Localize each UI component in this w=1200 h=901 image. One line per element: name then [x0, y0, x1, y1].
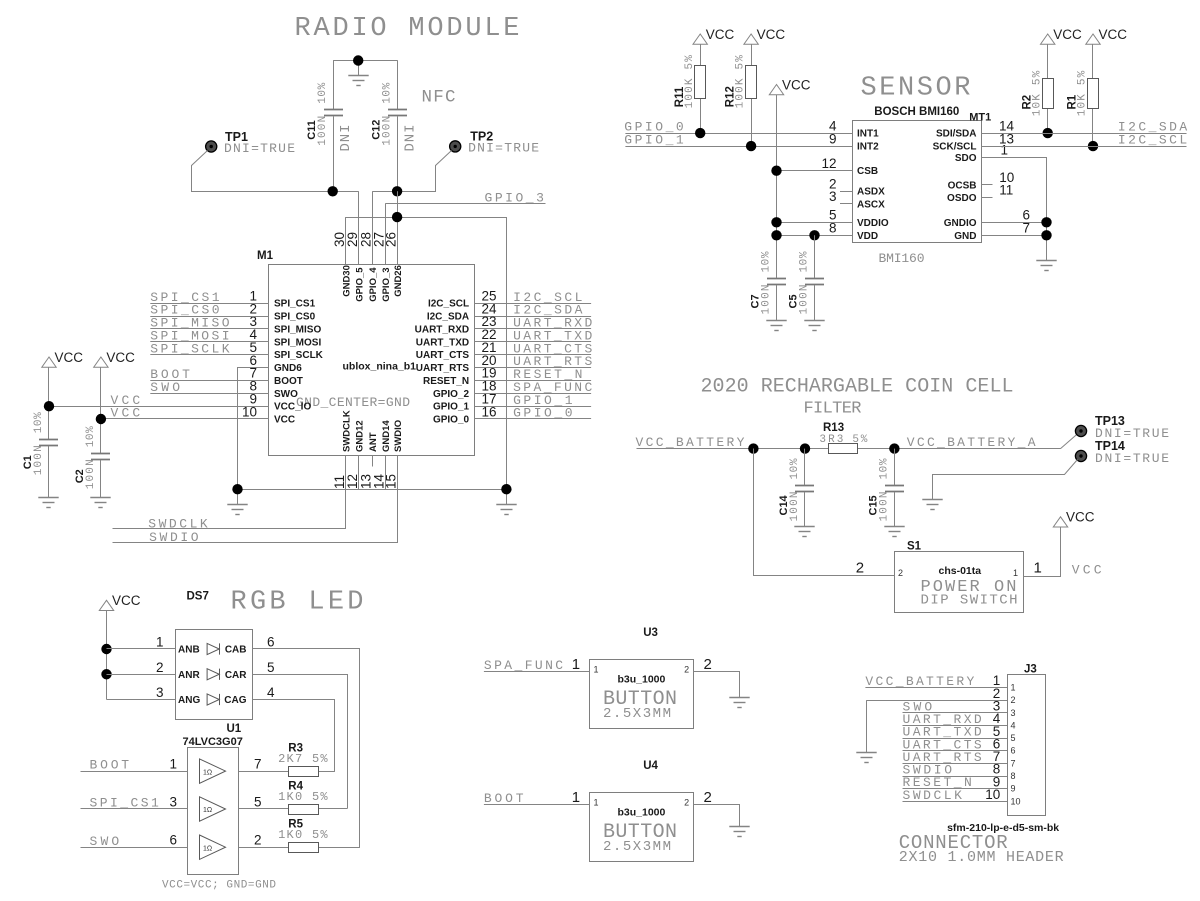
- svg-text:GND26: GND26: [393, 265, 404, 297]
- sensor MT1 BMI160 box: [853, 121, 982, 243]
- svg-text:26: 26: [383, 232, 398, 247]
- svg-text:SWDIO: SWDIO: [393, 420, 404, 452]
- svg-text:10K 5%: 10K 5%: [1077, 70, 1089, 116]
- svg-text:2: 2: [1011, 695, 1016, 705]
- wire net RESET_N: [474, 380, 591, 382]
- wire bottom ground bus: [238, 489, 507, 491]
- svg-text:VCC_BATTERY: VCC_BATTERY: [636, 435, 745, 450]
- power VCC sensor: [769, 85, 783, 95]
- svg-text:100N: 100N: [789, 492, 801, 522]
- svg-text:5: 5: [1011, 733, 1016, 743]
- junction VCC pin10: [96, 414, 106, 424]
- wire SDO to ground: [982, 158, 1047, 261]
- svg-text:1: 1: [572, 789, 580, 806]
- wire GND6 to ground bus: [238, 368, 269, 490]
- wire VCC_BATTERY_A: [858, 448, 1061, 450]
- svg-text:VCC: VCC: [1053, 27, 1082, 42]
- svg-text:9: 9: [1011, 784, 1016, 794]
- junction VDD vert: [771, 230, 781, 240]
- power VCC DS7: [99, 600, 113, 610]
- wire U1 out R4: [239, 808, 288, 810]
- svg-text:2: 2: [684, 797, 689, 807]
- svg-text:GND14: GND14: [381, 420, 392, 452]
- svg-text:100N: 100N: [799, 285, 811, 315]
- svg-text:GND: GND: [954, 231, 976, 242]
- svg-text:OSDO: OSDO: [947, 193, 977, 204]
- connector J3 box: [1008, 675, 1046, 816]
- capacitor C14: [804, 449, 806, 485]
- wire VCC to LED anodes: [106, 611, 108, 700]
- svg-text:2: 2: [856, 560, 864, 577]
- svg-text:GPIO_3: GPIO_3: [381, 267, 392, 301]
- ground M1 right: [496, 505, 516, 515]
- svg-text:1K0 5%: 1K0 5%: [278, 790, 328, 804]
- svg-text:2K7 5%: 2K7 5%: [278, 752, 328, 766]
- svg-text:CAR: CAR: [225, 670, 247, 681]
- junction GNDIO: [1041, 217, 1051, 227]
- svg-text:1: 1: [572, 656, 580, 673]
- svg-text:chs-01ta: chs-01ta: [939, 565, 982, 577]
- wire U4 pin2 to ground: [694, 805, 740, 827]
- junction vbat1: [748, 443, 758, 453]
- svg-text:NFC: NFC: [422, 88, 456, 108]
- diode ANB: [207, 643, 219, 654]
- junction CSB: [771, 166, 781, 176]
- resistor R11: [693, 34, 707, 44]
- svg-text:1: 1: [594, 797, 599, 807]
- svg-text:GPIO_2: GPIO_2: [433, 389, 470, 400]
- svg-text:SPI_CS1: SPI_CS1: [274, 299, 316, 310]
- svg-text:I2C_SCL: I2C_SCL: [1118, 133, 1187, 148]
- svg-text:SDI/SDA: SDI/SDA: [936, 129, 977, 140]
- capacitor C15: [894, 449, 896, 485]
- svg-text:2: 2: [704, 789, 712, 806]
- svg-text:DNI: DNI: [403, 125, 419, 152]
- resistor R1: [1086, 34, 1100, 44]
- wire U4 pin1 BOOT: [484, 804, 590, 806]
- wire top GND bus: [346, 218, 507, 490]
- ground M1 left: [227, 505, 247, 515]
- junction C11 bottom: [328, 186, 338, 196]
- svg-text:8: 8: [1011, 771, 1016, 781]
- svg-text:ASDX: ASDX: [857, 187, 885, 198]
- svg-text:1Ω: 1Ω: [203, 769, 212, 776]
- svg-text:ANT: ANT: [368, 432, 379, 452]
- connector pin 5 UART_TXD: [903, 738, 1008, 740]
- svg-text:UART_RXD: UART_RXD: [415, 324, 469, 335]
- junction GND pin: [1041, 230, 1051, 240]
- connector pin 4 UART_RXD: [903, 725, 1008, 727]
- svg-text:2: 2: [704, 656, 712, 673]
- wire GPIO_3: [385, 203, 545, 205]
- wire CAB to R5: [253, 649, 360, 848]
- junction top rail: [353, 55, 363, 65]
- svg-text:GPIO_0: GPIO_0: [433, 415, 470, 426]
- svg-text:1Ω: 1Ω: [203, 807, 212, 814]
- svg-text:100N: 100N: [317, 116, 329, 146]
- svg-text:5: 5: [254, 795, 262, 810]
- svg-text:GND12: GND12: [355, 420, 366, 452]
- resistor R2: [1041, 34, 1055, 44]
- wire net I2C_SCL: [981, 146, 1186, 148]
- module M1 ublox_nina_b1 box: [269, 265, 475, 456]
- ground J3: [856, 753, 876, 763]
- svg-text:CAB: CAB: [225, 645, 247, 656]
- testpoint TP14: [1075, 450, 1086, 461]
- wire VCC to pin10: [101, 418, 269, 420]
- svg-text:SPI_MISO: SPI_MISO: [274, 324, 321, 335]
- led pin row ANG/CAG: [107, 699, 176, 701]
- power VCC S1: [1053, 517, 1067, 527]
- svg-text:UART_RTS: UART_RTS: [416, 363, 470, 374]
- wire net SWDIO: [113, 456, 398, 543]
- wire net I2C_SDA: [474, 316, 591, 318]
- svg-text:1Ω: 1Ω: [203, 845, 212, 852]
- svg-text:ASCX: ASCX: [857, 199, 885, 210]
- junction C12 bottom: [392, 186, 402, 196]
- wire net I2C_SCL: [474, 303, 591, 305]
- svg-text:VCC_BATTERY: VCC_BATTERY: [865, 674, 974, 689]
- svg-text:DNI=TRUE: DNI=TRUE: [1095, 451, 1169, 466]
- svg-text:VDDIO: VDDIO: [857, 218, 889, 229]
- svg-text:INT1: INT1: [857, 129, 879, 140]
- svg-text:1K0 5%: 1K0 5%: [278, 828, 328, 842]
- svg-text:100N: 100N: [85, 459, 97, 489]
- svg-text:16: 16: [482, 404, 497, 419]
- svg-text:VCC: VCC: [706, 27, 735, 42]
- capacitor C12: [397, 61, 399, 110]
- svg-text:GPIO_4: GPIO_4: [368, 267, 379, 302]
- svg-text:SWO: SWO: [274, 389, 298, 400]
- svg-text:10: 10: [985, 787, 1000, 802]
- svg-text:VCC: VCC: [782, 77, 811, 92]
- svg-text:2: 2: [254, 833, 262, 848]
- junction VDD C5: [809, 230, 819, 240]
- svg-text:SPI_MOSI: SPI_MOSI: [274, 337, 321, 348]
- wire net GPIO_1: [474, 406, 591, 408]
- svg-text:10%: 10%: [381, 82, 393, 103]
- svg-text:6: 6: [267, 635, 275, 650]
- connector pin 10 SWDCLK: [903, 801, 1008, 803]
- svg-text:11: 11: [999, 183, 1013, 198]
- switch S1 chs-01ta box: [895, 552, 1024, 613]
- wire net BOOT: [150, 380, 269, 382]
- wire net UART_RXD: [474, 328, 591, 330]
- svg-text:SWO: SWO: [150, 380, 180, 395]
- svg-text:3: 3: [829, 189, 837, 204]
- connector pin 9 RESET_N: [903, 788, 1008, 790]
- svg-text:100N: 100N: [761, 285, 773, 315]
- wire net SPI_MOSI: [150, 341, 269, 343]
- wire S1 pin1 to VCC: [1024, 528, 1061, 577]
- pin ANT stub: [372, 456, 374, 467]
- wire CAG to R3: [253, 700, 335, 772]
- svg-text:DNI: DNI: [338, 125, 354, 152]
- svg-text:RESET_N: RESET_N: [423, 376, 469, 387]
- svg-text:GPIO_1: GPIO_1: [433, 402, 470, 413]
- svg-text:7: 7: [254, 757, 262, 772]
- led DS7 box: [176, 630, 253, 720]
- ground C5: [804, 321, 824, 331]
- svg-text:3: 3: [169, 795, 177, 810]
- pin stub ASDX: [840, 191, 853, 193]
- junction R1 SCL: [1088, 141, 1098, 151]
- svg-text:ANG: ANG: [178, 695, 200, 706]
- connector pin 2 GND: [867, 700, 1007, 702]
- svg-text:BMI160: BMI160: [879, 251, 925, 266]
- svg-text:VCC: VCC: [106, 350, 135, 365]
- ground sensor: [1036, 261, 1056, 271]
- diode ANR: [207, 669, 219, 680]
- junction VDDIO: [771, 217, 781, 227]
- testpoint TP2: [450, 141, 461, 152]
- wire TP1 to NFC1 rail: [192, 151, 359, 192]
- svg-text:MT1: MT1: [969, 112, 991, 124]
- svg-text:b3u_1000: b3u_1000: [618, 674, 666, 686]
- ground U4: [729, 827, 749, 837]
- svg-text:INT2: INT2: [857, 142, 879, 153]
- resistor R5: [289, 843, 319, 853]
- svg-text:1: 1: [1033, 560, 1041, 577]
- buffer row SWO: [81, 847, 188, 849]
- ground C2: [90, 498, 110, 508]
- svg-text:2X10 1.0MM HEADER: 2X10 1.0MM HEADER: [899, 849, 1064, 866]
- ground U3: [729, 698, 749, 708]
- svg-text:GND_CENTER=GND: GND_CENTER=GND: [296, 395, 410, 410]
- svg-text:BOSCH BMI160: BOSCH BMI160: [874, 106, 959, 118]
- resistor R12: [744, 34, 758, 44]
- svg-text:10%: 10%: [878, 458, 890, 479]
- svg-text:UART_TXD: UART_TXD: [416, 337, 469, 348]
- ground C1: [38, 498, 58, 508]
- svg-text:100N: 100N: [381, 116, 393, 146]
- svg-text:1: 1: [594, 664, 599, 674]
- buffer U1 74LVC3G07 box: [188, 748, 239, 875]
- svg-text:10%: 10%: [789, 458, 801, 479]
- wire CAR to R4: [253, 675, 348, 809]
- wire VCC to CSB VDDIO VDD: [776, 95, 778, 278]
- svg-text:10: 10: [1011, 796, 1021, 806]
- svg-text:VCC: VCC: [757, 27, 786, 42]
- svg-text:74LVC3G07: 74LVC3G07: [183, 736, 243, 748]
- svg-text:SWDIO: SWDIO: [149, 530, 199, 545]
- capacitor C11: [333, 61, 335, 110]
- wire net SWO: [150, 393, 269, 395]
- svg-text:5%: 5%: [852, 434, 867, 446]
- ground top NFC: [348, 76, 368, 86]
- junction ANB: [101, 644, 111, 654]
- wire net SWDCLK: [113, 456, 346, 529]
- svg-text:FILTER: FILTER: [804, 400, 862, 419]
- svg-text:J3: J3: [1024, 664, 1037, 676]
- pin stub ASCX: [840, 203, 853, 205]
- svg-text:2.5X3MM: 2.5X3MM: [603, 706, 671, 722]
- wire TP2 to NFC2 rail: [373, 151, 452, 192]
- svg-text:SWDCLK: SWDCLK: [342, 410, 353, 452]
- power VCC rail2: [94, 357, 108, 367]
- svg-text:1: 1: [169, 757, 177, 772]
- svg-text:10K 5%: 10K 5%: [1031, 70, 1043, 116]
- svg-text:3: 3: [1011, 708, 1016, 718]
- connector pin 8 SWDIO: [903, 776, 1008, 778]
- wire GNDIO: [981, 222, 1046, 224]
- svg-text:VCC: VCC: [112, 593, 141, 608]
- junction C15 top: [889, 443, 899, 453]
- svg-text:VCC_IO: VCC_IO: [274, 402, 311, 413]
- svg-text:3R3: 3R3: [819, 434, 843, 446]
- wire net UART_TXD: [474, 341, 591, 343]
- capacitor C1: [39, 440, 58, 446]
- junction C14 top: [800, 443, 810, 453]
- ground C15: [884, 527, 904, 537]
- wire pin28 drop: [372, 191, 374, 264]
- svg-text:VCC: VCC: [1072, 563, 1102, 578]
- junction ANR: [101, 669, 111, 679]
- svg-text:BOOT: BOOT: [274, 376, 303, 387]
- svg-text:I2C_SDA: I2C_SDA: [427, 312, 469, 323]
- svg-text:GND30: GND30: [342, 265, 353, 297]
- capacitor C7: [767, 279, 786, 285]
- junction gnd right: [501, 484, 511, 494]
- pin stub OSDO: [981, 197, 992, 199]
- svg-text:SDO: SDO: [955, 153, 977, 164]
- wire VDD stub: [777, 235, 853, 237]
- svg-text:1: 1: [1013, 568, 1018, 578]
- wire net SPI_MISO: [150, 328, 269, 330]
- svg-text:DIP SWITCH: DIP SWITCH: [921, 593, 1018, 609]
- svg-text:2: 2: [898, 568, 903, 578]
- wire J3 pin2 to ground: [866, 700, 868, 752]
- wire net SPA_FUNC: [474, 393, 591, 395]
- svg-text:7: 7: [1011, 758, 1016, 768]
- svg-text:10%: 10%: [317, 82, 329, 103]
- svg-text:DS7: DS7: [187, 591, 209, 603]
- svg-text:VCC: VCC: [55, 350, 84, 365]
- buffer row BOOT: [81, 771, 188, 773]
- svg-text:10%: 10%: [85, 426, 97, 447]
- wire net SPI_SCLK: [150, 354, 269, 356]
- led pin row ANB/CAB: [107, 648, 176, 650]
- svg-text:DNI=TRUE: DNI=TRUE: [468, 141, 539, 156]
- wire net SPI_CS1: [150, 303, 269, 305]
- junction R11 GPIO_0: [695, 128, 705, 138]
- ground C7: [766, 321, 786, 331]
- connector pin 7 UART_RTS: [903, 763, 1008, 765]
- svg-text:10%: 10%: [799, 251, 811, 272]
- svg-text:GND6: GND6: [274, 363, 302, 374]
- testpoint TP1: [206, 141, 217, 152]
- svg-text:CAG: CAG: [224, 695, 246, 706]
- wire VDDIO stub: [777, 222, 853, 224]
- svg-text:SWO: SWO: [90, 834, 120, 849]
- junction R12 GPIO_1: [746, 141, 756, 151]
- connector pin 6 UART_CTS: [903, 750, 1008, 752]
- ground C14: [794, 527, 814, 537]
- svg-text:b3u_1000: b3u_1000: [618, 807, 666, 819]
- junction pin26 gnd: [392, 212, 402, 222]
- wire VCC_BATTERY: [637, 448, 830, 450]
- wire U3 pin1 SPA_FUNC: [484, 671, 590, 673]
- svg-text:12: 12: [821, 156, 836, 171]
- wire net GPIO_0: [625, 133, 852, 135]
- svg-text:2020 RECHARGABLE COIN CELL: 2020 RECHARGABLE COIN CELL: [701, 376, 1014, 399]
- svg-text:4: 4: [1011, 720, 1016, 730]
- junction R2 SDA: [1043, 128, 1053, 138]
- svg-text:ANR: ANR: [178, 670, 200, 681]
- wire TP14 to ground: [933, 460, 1078, 500]
- button U4 b3u_1000 box: [590, 793, 694, 862]
- svg-text:ANB: ANB: [178, 645, 200, 656]
- wire U1 out R3: [239, 771, 288, 773]
- svg-text:1: 1: [1011, 683, 1016, 693]
- wire VCC to pin9: [49, 406, 269, 408]
- svg-text:1: 1: [156, 635, 164, 650]
- buffer row SPI_CS1: [81, 808, 188, 810]
- junction gnd left: [232, 484, 242, 494]
- svg-text:SPI_SCLK: SPI_SCLK: [274, 350, 324, 361]
- svg-text:10%: 10%: [761, 251, 773, 272]
- wire net GPIO_0: [474, 418, 591, 420]
- wire GND pin: [981, 235, 1046, 237]
- wire net GPIO_1: [625, 146, 852, 148]
- svg-text:2.5X3MM: 2.5X3MM: [603, 839, 671, 855]
- svg-text:SCK/SCL: SCK/SCL: [933, 142, 977, 153]
- svg-text:VCC=VCC; GND=GND: VCC=VCC; GND=GND: [162, 879, 276, 891]
- svg-text:100N: 100N: [33, 445, 45, 475]
- svg-text:RGB LED: RGB LED: [231, 588, 364, 618]
- svg-text:VCC: VCC: [111, 406, 141, 421]
- svg-text:VCC: VCC: [1066, 510, 1095, 525]
- wire U3 pin2 to ground: [694, 672, 740, 698]
- svg-text:3: 3: [156, 685, 164, 700]
- svg-text:10%: 10%: [33, 412, 45, 433]
- button U3 b3u_1000 box: [590, 660, 694, 729]
- svg-text:I2C_SCL: I2C_SCL: [428, 299, 469, 310]
- svg-text:OCSB: OCSB: [948, 180, 977, 191]
- svg-text:6: 6: [169, 833, 177, 848]
- svg-text:U3: U3: [643, 627, 658, 639]
- svg-text:5: 5: [267, 660, 275, 675]
- svg-text:SPI_CS0: SPI_CS0: [274, 312, 316, 323]
- svg-text:4: 4: [267, 685, 275, 700]
- svg-text:VDD: VDD: [857, 231, 878, 242]
- svg-text:2: 2: [156, 660, 164, 675]
- ground TP14: [922, 500, 942, 510]
- svg-text:M1: M1: [257, 250, 274, 262]
- svg-text:UART_CTS: UART_CTS: [416, 350, 470, 361]
- wire net UART_RTS: [474, 367, 591, 369]
- svg-text:2: 2: [684, 664, 689, 674]
- svg-text:S1: S1: [907, 541, 922, 553]
- svg-text:U1: U1: [227, 723, 242, 735]
- wire CSB stub: [777, 170, 853, 172]
- svg-text:6: 6: [1011, 746, 1016, 756]
- testpoint TP13: [1061, 434, 1078, 448]
- svg-text:100N: 100N: [878, 492, 890, 522]
- resistor R4: [289, 805, 319, 815]
- led pin row ANR/CAR: [107, 674, 176, 676]
- connector pin 3 SWO: [903, 712, 1008, 714]
- svg-text:VCC: VCC: [274, 415, 295, 426]
- wire net SPI_CS0: [150, 316, 269, 318]
- wire net UART_CTS: [474, 354, 591, 356]
- svg-text:GPIO_5: GPIO_5: [355, 267, 366, 302]
- wire pin29 drop: [358, 191, 360, 264]
- wire S1 pin2: [754, 449, 895, 576]
- svg-text:U4: U4: [643, 760, 658, 772]
- svg-text:DNI=TRUE: DNI=TRUE: [224, 141, 295, 156]
- svg-text:CSB: CSB: [857, 166, 878, 177]
